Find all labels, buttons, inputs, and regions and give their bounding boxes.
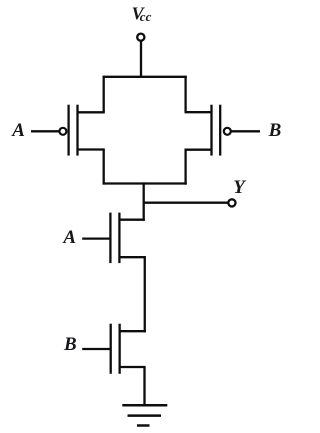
svg-text:cc: cc <box>140 9 152 24</box>
svg-text:B: B <box>63 334 77 355</box>
svg-text:A: A <box>11 120 25 141</box>
svg-text:B: B <box>268 120 282 141</box>
svg-text:A: A <box>62 227 76 248</box>
svg-text:Y: Y <box>233 177 247 198</box>
